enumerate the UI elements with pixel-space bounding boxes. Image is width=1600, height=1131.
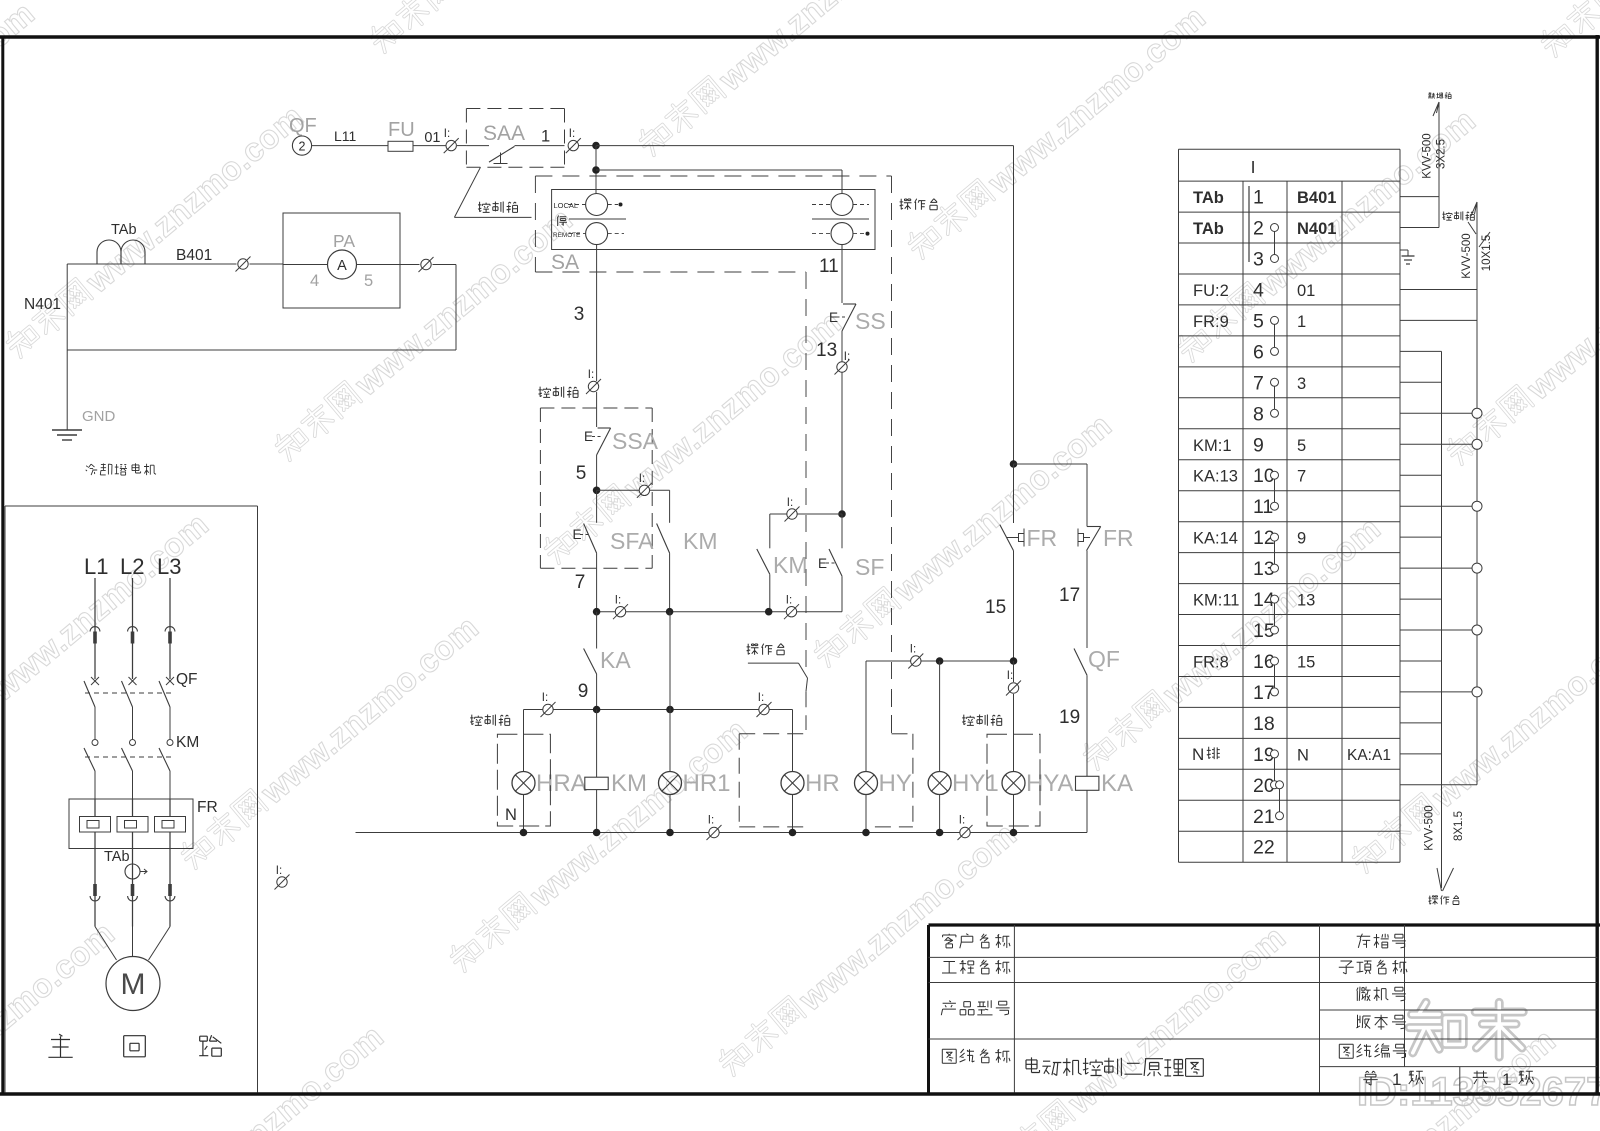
svg-text:I:: I: xyxy=(787,497,793,509)
svg-text:I:: I: xyxy=(708,815,714,827)
svg-text:SA: SA xyxy=(551,251,579,274)
svg-text:7: 7 xyxy=(1297,468,1306,486)
svg-text:FR:9: FR:9 xyxy=(1193,313,1229,331)
svg-text:M: M xyxy=(121,968,146,1001)
svg-text:KA: KA xyxy=(1101,770,1133,797)
svg-text:L2: L2 xyxy=(120,554,144,579)
svg-text:QF: QF xyxy=(289,115,317,137)
svg-text:I:: I: xyxy=(758,692,764,704)
svg-text:KVV-500: KVV-500 xyxy=(1422,133,1434,178)
svg-text:FU: FU xyxy=(388,119,415,141)
svg-text:5: 5 xyxy=(576,463,587,484)
svg-text:19: 19 xyxy=(1059,707,1080,728)
svg-text:10X1.5: 10X1.5 xyxy=(1481,235,1493,271)
svg-text:L3: L3 xyxy=(157,554,181,579)
svg-text:HRA: HRA xyxy=(536,770,587,797)
svg-text:SFA: SFA xyxy=(610,528,654,554)
svg-text:N: N xyxy=(505,806,517,824)
svg-text:I:: I: xyxy=(444,128,450,140)
svg-text:SF: SF xyxy=(855,554,884,580)
svg-text:13: 13 xyxy=(1297,592,1315,610)
svg-text:I:: I: xyxy=(844,351,850,363)
svg-text:FU:2: FU:2 xyxy=(1193,282,1229,300)
svg-text:HY1: HY1 xyxy=(952,770,999,797)
svg-text:3: 3 xyxy=(1297,375,1306,393)
svg-text:E: E xyxy=(818,556,827,571)
svg-text:I:: I: xyxy=(639,473,645,485)
svg-text:5: 5 xyxy=(1297,437,1306,455)
svg-text:7: 7 xyxy=(1253,372,1264,394)
svg-text:TAb: TAb xyxy=(111,222,137,238)
svg-text:15: 15 xyxy=(985,597,1006,618)
svg-text:22: 22 xyxy=(1253,837,1275,859)
svg-text:KM:1: KM:1 xyxy=(1193,437,1232,455)
svg-text:3X2.5: 3X2.5 xyxy=(1436,139,1448,169)
svg-text:QF: QF xyxy=(1088,646,1120,672)
svg-text:L11: L11 xyxy=(334,128,357,144)
svg-text:B401: B401 xyxy=(176,247,212,264)
svg-text:01: 01 xyxy=(1297,282,1315,300)
svg-text:I:: I: xyxy=(910,644,916,656)
svg-text:KM: KM xyxy=(176,734,199,751)
svg-text:01: 01 xyxy=(424,130,440,146)
svg-text:KA:14: KA:14 xyxy=(1193,530,1238,548)
svg-text:4: 4 xyxy=(310,272,319,290)
svg-text:TAb: TAb xyxy=(104,849,130,865)
svg-text:1: 1 xyxy=(541,128,550,146)
svg-text:N: N xyxy=(1297,746,1309,764)
svg-text:9: 9 xyxy=(1297,530,1306,548)
svg-text:FR: FR xyxy=(1103,525,1134,551)
svg-text:KM: KM xyxy=(683,528,718,554)
svg-text:1: 1 xyxy=(1297,313,1306,331)
svg-text:SSA: SSA xyxy=(612,428,659,454)
svg-text:FR:8: FR:8 xyxy=(1193,654,1229,672)
svg-text:N401: N401 xyxy=(24,296,61,313)
svg-text:A: A xyxy=(337,258,347,274)
svg-text:KA:A1: KA:A1 xyxy=(1347,747,1391,764)
svg-text:HR: HR xyxy=(805,770,840,797)
svg-text:8X1.5: 8X1.5 xyxy=(1453,811,1465,841)
svg-text:SAA: SAA xyxy=(483,122,525,145)
svg-text:4: 4 xyxy=(1253,280,1264,302)
svg-text:KM: KM xyxy=(611,770,647,797)
svg-text:TAb: TAb xyxy=(1193,220,1224,238)
svg-text:I:: I: xyxy=(1007,670,1013,682)
svg-text:KM: KM xyxy=(773,552,808,578)
svg-text:1: 1 xyxy=(1502,1070,1511,1089)
svg-text:N: N xyxy=(1192,745,1204,764)
svg-text:I:: I: xyxy=(276,865,282,877)
svg-text:N401: N401 xyxy=(1297,220,1336,238)
svg-text:1: 1 xyxy=(1253,187,1264,209)
svg-text:HY: HY xyxy=(879,770,912,797)
svg-text:GND: GND xyxy=(82,408,116,425)
svg-text:3: 3 xyxy=(574,304,585,325)
svg-text:9: 9 xyxy=(1253,434,1264,456)
svg-text:15: 15 xyxy=(1297,654,1315,672)
svg-text:LOCAL: LOCAL xyxy=(554,201,579,210)
svg-text:QF: QF xyxy=(176,671,198,688)
svg-text:I:: I: xyxy=(542,692,548,704)
svg-text:PA: PA xyxy=(333,231,355,251)
svg-text:FR: FR xyxy=(1027,525,1058,551)
svg-text:E: E xyxy=(584,429,593,444)
svg-text:KM:11: KM:11 xyxy=(1193,592,1239,610)
svg-text:TAb: TAb xyxy=(1193,189,1224,207)
svg-text:HR1: HR1 xyxy=(683,770,731,797)
svg-text:2: 2 xyxy=(1253,218,1264,240)
svg-text:7: 7 xyxy=(575,572,586,593)
svg-text:I:: I: xyxy=(588,369,594,381)
svg-text:B401: B401 xyxy=(1297,189,1336,207)
svg-text:KVV-500: KVV-500 xyxy=(1424,805,1436,850)
svg-text:21: 21 xyxy=(1253,806,1275,828)
svg-text:SS: SS xyxy=(855,308,886,334)
svg-text:2: 2 xyxy=(299,140,306,154)
svg-text:KA:13: KA:13 xyxy=(1193,468,1238,486)
svg-text:L1: L1 xyxy=(84,554,108,579)
svg-text:6: 6 xyxy=(1253,341,1264,363)
svg-text:18: 18 xyxy=(1253,713,1275,735)
svg-text:8: 8 xyxy=(1253,403,1264,425)
svg-text:I: I xyxy=(1251,157,1256,177)
svg-text:I:: I: xyxy=(615,595,621,607)
svg-text:13: 13 xyxy=(816,340,837,361)
svg-text:I:: I: xyxy=(959,815,965,827)
svg-text:17: 17 xyxy=(1059,585,1080,606)
svg-text:KVV-500: KVV-500 xyxy=(1461,233,1473,278)
svg-text:I:: I: xyxy=(569,128,575,140)
svg-text:FR: FR xyxy=(197,799,218,816)
svg-text:KA: KA xyxy=(600,647,631,673)
svg-text:3: 3 xyxy=(1253,249,1264,271)
svg-text:HYA: HYA xyxy=(1026,770,1074,797)
svg-text:5: 5 xyxy=(364,272,373,290)
svg-text:9: 9 xyxy=(578,681,589,702)
svg-text:11: 11 xyxy=(819,256,839,277)
svg-text:1: 1 xyxy=(1392,1070,1401,1089)
svg-text:5: 5 xyxy=(1253,310,1264,332)
svg-text:REMOTE: REMOTE xyxy=(553,232,580,239)
svg-text:I:: I: xyxy=(786,595,792,607)
